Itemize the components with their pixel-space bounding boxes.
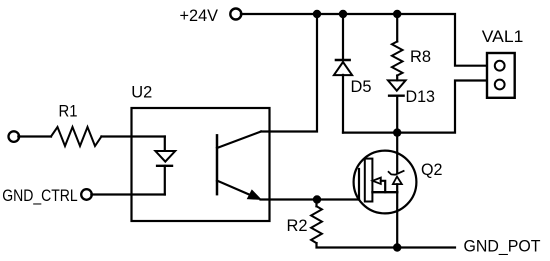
body diode cathode bar <box>389 171 404 175</box>
junction node at source/GND rail <box>393 243 401 251</box>
channel rectangle <box>365 159 373 202</box>
resistor R2 <box>311 200 455 248</box>
svg-text:R8: R8 <box>410 47 431 66</box>
wire input to R1 <box>18 135 51 137</box>
wire +24V rail to VAL1 top pin <box>241 14 487 66</box>
svg-text:R1: R1 <box>59 102 78 121</box>
optocoupler U2 box <box>132 108 270 221</box>
GND_CTRL terminal <box>81 189 92 200</box>
wire emitter to MOSFET gate <box>261 198 360 200</box>
junction node at collector drop <box>313 10 321 18</box>
diode D13 <box>388 80 406 132</box>
svg-text:D13: D13 <box>406 87 436 106</box>
drain line <box>396 133 398 174</box>
connector VAL1 <box>487 53 515 98</box>
diode D5 <box>334 14 352 133</box>
LED inside U2 <box>155 137 175 195</box>
svg-text:D5: D5 <box>351 77 372 96</box>
svg-text:GND_CTRL: GND_CTRL <box>2 186 78 205</box>
resistor R1 <box>51 127 101 146</box>
svg-text:VAL1: VAL1 <box>482 27 524 46</box>
wire collector drop <box>261 14 317 132</box>
junction node at R8 <box>393 10 401 18</box>
svg-text:Q2: Q2 <box>421 160 443 179</box>
wire GND_CTRL to U2 LED cathode <box>91 193 165 195</box>
svg-text:GND_POT: GND_POT <box>464 237 541 256</box>
junction node at D5 <box>339 10 347 18</box>
wire R1 to U2 LED anode <box>101 135 164 137</box>
body diode triangle <box>393 177 402 185</box>
junction node at drain <box>393 128 401 136</box>
resistor R8 <box>392 14 403 80</box>
junction node at R2 <box>313 195 321 203</box>
gate electrode <box>358 169 360 200</box>
+24V terminal <box>230 9 241 20</box>
svg-text:R2: R2 <box>287 216 308 235</box>
input terminal <box>9 131 20 142</box>
wire clamp bottom to VAL1 bottom pin <box>343 81 487 133</box>
source bar <box>373 191 398 193</box>
source line <box>396 192 398 247</box>
svg-text:U2: U2 <box>131 83 152 102</box>
phototransistor inside U2 <box>217 132 261 200</box>
MOSFET Q2 <box>354 133 417 248</box>
substrate arrow <box>373 178 381 184</box>
svg-text:+24V: +24V <box>180 6 219 25</box>
